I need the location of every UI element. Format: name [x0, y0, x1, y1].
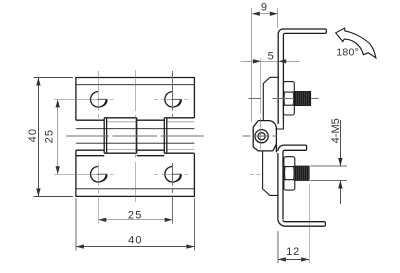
- horizontal centerline hinge axis: [66, 135, 204, 137]
- upper bolt centerline: [249, 98, 319, 100]
- dim 40 bottom: extension lines: [76, 198, 194, 250]
- lower bolt hex head: [284, 157, 295, 190]
- upper stud thread ticks: [296, 92, 308, 105]
- dim 40 bottom arrows: [76, 244, 194, 248]
- dim 4-M5: dimension line: [339, 120, 341, 204]
- dim 4-M5: extension lines from stud: [311, 166, 347, 181]
- dim 25 bottom: extension lines: [98, 196, 172, 223]
- dim 12: dimension line: [278, 258, 309, 260]
- svg-text:9: 9: [261, 1, 267, 13]
- lower bolt threaded stud: [295, 166, 309, 181]
- dim 40 bottom: dimension line: [76, 246, 194, 248]
- dim 40 left: dimension line: [37, 78, 39, 197]
- horizontal centerline top hole row: [54, 98, 188, 100]
- vertical centerline right holes: [172, 71, 174, 193]
- svg-text:180°: 180°: [336, 46, 359, 58]
- rotation arrow 180: [336, 28, 376, 58]
- lower leaf plate outline: [76, 150, 194, 196]
- dim 25 left arrows: [56, 99, 60, 174]
- pivot axis vertical centerline: [260, 58, 262, 150]
- dim 5: dimension line: [240, 60, 300, 62]
- lower stud thread ticks: [297, 166, 309, 180]
- dim 25 bottom: dimension line: [98, 219, 172, 221]
- upper boss: [263, 77, 278, 120]
- dim 4-M5 arrows (outside): [338, 158, 342, 189]
- svg-text:25: 25: [128, 209, 143, 221]
- pivot pin centerline dark dash: [258, 135, 266, 137]
- hole bottom-left: [91, 167, 107, 182]
- pivot axis horizontal centerline: [243, 135, 277, 137]
- svg-text:12: 12: [286, 246, 300, 258]
- lower leaf flange line: [76, 188, 194, 190]
- dim 12 arrows: [278, 257, 309, 261]
- dim 9 arrows: [252, 12, 278, 16]
- horizontal centerline bottom hole row: [54, 173, 188, 175]
- upper leaf with top flange: [278, 29, 326, 124]
- svg-text:40: 40: [128, 235, 143, 247]
- dim 25 left: dimension line: [57, 99, 59, 174]
- lower bolt centerline: [250, 174, 261, 176]
- svg-text:40: 40: [27, 128, 39, 143]
- dim 9: dimension line: [252, 13, 278, 15]
- svg-text:5: 5: [268, 51, 274, 63]
- lower leaf vertical part: [277, 153, 279, 219]
- hole top-left: [91, 92, 107, 107]
- dim 5 arrows (outside): [253, 59, 286, 63]
- knuckle joint vertical lines: [104, 118, 167, 153]
- vertical centerline middle: [134, 70, 136, 202]
- lower leaf bottom flange: [278, 219, 326, 227]
- svg-text:25: 25: [44, 129, 56, 144]
- upper bolt hex head: [283, 82, 294, 115]
- dim 40 left: extension lines: [34, 78, 74, 197]
- hinge knuckle barrel: raised segments: [104, 118, 194, 153]
- upper leaf bottom end edge: [276, 121, 285, 129]
- dim 9: extension lines: [252, 8, 278, 122]
- pivot knuckle outline: [253, 121, 276, 153]
- lower leaf middle flange: [278, 145, 307, 152]
- hole bottom-right: [165, 167, 181, 182]
- hole top-right: [165, 92, 181, 107]
- hinge knuckle barrel: flush segments: [76, 120, 164, 156]
- lower boss: [263, 151, 278, 196]
- upper leaf flange line: [76, 84, 194, 86]
- knuckle raised segment thin lines: [107, 122, 195, 150]
- pivot pin circles: [255, 130, 268, 143]
- upper leaf plate outline: [76, 78, 194, 121]
- vertical centerline left holes: [97, 71, 99, 193]
- dim 25 bottom arrows: [98, 218, 172, 222]
- dim 40 left arrows: [36, 78, 40, 197]
- hinge pin lines: [76, 129, 194, 144]
- upper bolt threaded stud: [295, 91, 311, 105]
- dim 12: extension lines: [278, 184, 309, 263]
- svg-text:4-M5: 4-M5: [330, 118, 342, 143]
